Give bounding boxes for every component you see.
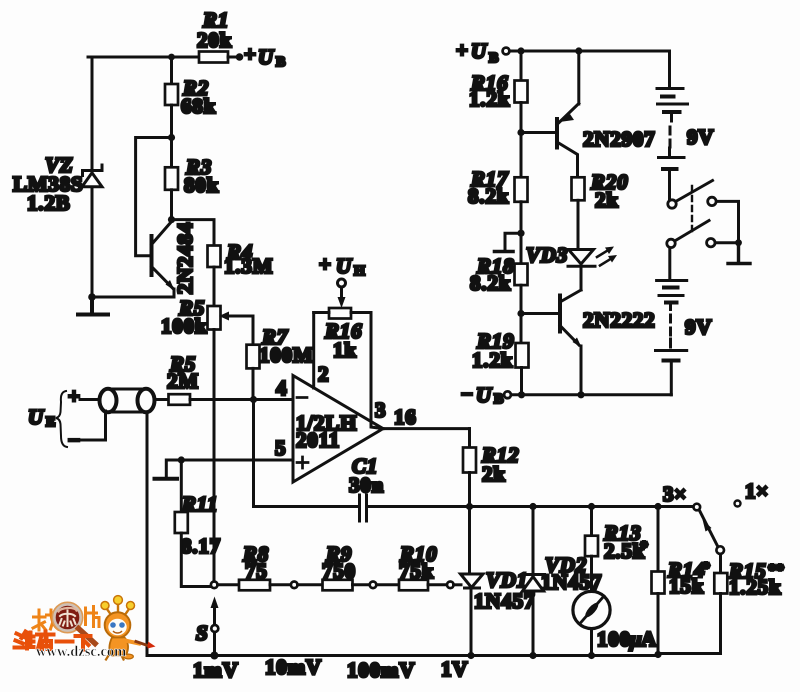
wire: +UB top rail to battery <box>510 50 670 53</box>
wire: R16 left stub <box>314 311 329 314</box>
red text weikuyixia <box>15 632 91 650</box>
wire: feedback rail left segment <box>254 505 359 508</box>
svg-text:1×: 1× <box>745 479 769 503</box>
wire: R12 to feedback rail <box>468 473 471 507</box>
svg-text:E: E <box>46 415 55 430</box>
meter M 100uA <box>573 591 610 628</box>
resistor R11 <box>175 512 188 533</box>
node: rail/R12 junction <box>466 503 473 510</box>
range contact 1V <box>447 582 454 589</box>
svg-text:1.2k: 1.2k <box>472 348 513 372</box>
ground (signal) <box>155 477 178 481</box>
node: bottom rail / meter <box>588 652 595 659</box>
wire: R2 to node <box>170 105 173 138</box>
diode VD1 1N457 <box>461 574 484 588</box>
wire: R18 to R19 <box>520 285 523 343</box>
wire: R7 down to inverting input node <box>252 368 255 399</box>
node: bottom rail / S <box>210 652 218 660</box>
node: collector / R4 junction <box>168 216 175 223</box>
svg-text:−: − <box>461 382 474 406</box>
wire: R8 to contact2 <box>270 583 291 586</box>
svg-text:16: 16 <box>394 405 417 429</box>
svg-text:2k: 2k <box>482 462 506 486</box>
shielded cable <box>100 389 155 412</box>
potentiometer R5 100k <box>208 306 221 330</box>
wire: emitter to ground rail <box>92 296 174 299</box>
svg-text:+: + <box>319 252 332 276</box>
node: right bus junction <box>735 239 742 246</box>
wire: input wire to op-amp pin 4 <box>190 398 293 401</box>
diode VD2 1N457 <box>522 575 545 592</box>
wire: meter to bottom rail <box>590 629 593 656</box>
wire: R2 branch vertical <box>170 57 173 84</box>
svg-text:100M: 100M <box>259 343 314 367</box>
resistor R2 <box>165 84 178 105</box>
battery B1 9V <box>657 89 688 200</box>
wire: output corner down to R12 <box>468 429 471 448</box>
node: bottom rail / VD1 <box>467 652 474 659</box>
wire: contact3 to R10 <box>377 583 400 586</box>
svg-text:8.2k: 8.2k <box>468 184 509 208</box>
svg-text:2M: 2M <box>167 369 199 393</box>
switch S1a pole <box>668 200 676 208</box>
wire: R17 to R18 <box>520 202 523 264</box>
svg-text:1mV: 1mV <box>193 658 239 682</box>
wire: R11 bottom to range contact <box>181 533 210 587</box>
wire: R20 to VD3 <box>577 200 580 249</box>
svg-text:4: 4 <box>276 376 287 400</box>
wire: R10 to contact4 <box>428 583 447 586</box>
svg-text:1k: 1k <box>333 338 357 362</box>
wire: collector node to R4 branch <box>172 220 215 246</box>
logo magnifier with xin <box>52 602 95 643</box>
wire: VD3 to 2N2222 collector <box>580 266 583 290</box>
svg-text:30n: 30n <box>349 473 384 497</box>
resistor R19 <box>516 343 529 368</box>
svg-text:U: U <box>471 39 488 63</box>
switch S circle <box>211 625 218 632</box>
svg-text:2N2222: 2N2222 <box>583 308 655 332</box>
svg-text:*: * <box>640 539 648 556</box>
wire: throw2 to right bus <box>716 241 737 244</box>
svg-text:75: 75 <box>245 559 268 583</box>
svg-text:9V: 9V <box>685 315 712 339</box>
capacitor C1 30n <box>360 495 367 521</box>
SEC_BOTTOM <box>15 596 156 660</box>
svg-text:1.3M: 1.3M <box>224 254 273 278</box>
wire: throw1 to right bus <box>717 201 739 239</box>
wire: node to R11 <box>180 460 183 512</box>
svg-text:750: 750 <box>322 559 356 583</box>
node: +UB junction <box>517 47 524 54</box>
range contact 100mV <box>370 582 377 589</box>
wire: VD1 branch vertical <box>470 507 472 656</box>
svg-text:100k: 100k <box>161 314 207 338</box>
LED VD3 <box>568 250 595 267</box>
svg-text:+: + <box>68 384 81 408</box>
wire: op-amp output <box>383 427 470 430</box>
plus sign inside op-amp <box>297 457 308 468</box>
terminal -UB <box>504 391 511 398</box>
wire: base wire 2N2222 <box>521 312 559 315</box>
svg-text:A: A <box>641 627 657 651</box>
resistor R5 (2M) <box>169 394 191 405</box>
switch S1a lever <box>677 181 713 202</box>
brace input <box>56 391 67 447</box>
mascot <box>101 596 156 660</box>
wire: + input lead <box>80 398 100 401</box>
wire: R14 branch <box>657 507 660 572</box>
svg-text:1N457: 1N457 <box>474 589 535 613</box>
resistor R3 <box>165 167 178 190</box>
wire: cable shield drop to bottom rail <box>146 412 149 656</box>
wire: R1 to +UB terminal <box>228 56 236 59</box>
wiper arm of S with arrow <box>213 606 216 624</box>
terminal +UB (right) <box>503 48 510 55</box>
wire: moving contact to R15 <box>719 554 722 573</box>
switch S1b lever <box>676 221 710 241</box>
resistor R16 (1.2k) <box>515 81 528 103</box>
wire: node to R3 <box>170 138 173 168</box>
node: rail/R14 junction <box>654 503 661 510</box>
resistor R17 <box>515 177 528 202</box>
svg-text:15k: 15k <box>669 574 704 598</box>
wire: pin 2 vertical <box>312 313 315 389</box>
svg-text:B: B <box>489 51 498 66</box>
svg-text:8.17: 8.17 <box>181 534 221 558</box>
wire: R19 to -UB rail <box>520 368 523 395</box>
potentiometer R16 1k <box>329 308 351 319</box>
resistor R13 <box>585 536 598 557</box>
wire: R4 to R5 pot <box>213 267 216 306</box>
node: bottom rail / VD2 <box>529 652 536 659</box>
switch link (dashed) <box>691 186 693 232</box>
svg-text:2k: 2k <box>595 188 619 212</box>
resistor R18 <box>515 264 528 286</box>
resistor R7 <box>247 345 260 369</box>
node: inverting input junction <box>250 396 257 403</box>
resistor R15 <box>714 573 727 594</box>
wire: battery column top <box>668 51 671 86</box>
svg-text:2: 2 <box>318 362 329 386</box>
node: rail/VD2 junction <box>529 503 536 510</box>
switch S2 moving contact <box>716 546 724 554</box>
svg-text:100: 100 <box>597 627 631 651</box>
svg-text:H: H <box>354 264 365 279</box>
switch S1a throw contact <box>708 197 716 205</box>
wire: left vertical (zener branch) <box>91 57 94 297</box>
wire: cable to R5 2M <box>155 398 169 401</box>
wire: collector-base bypass loop <box>136 138 172 256</box>
wire: R13 branch <box>590 507 593 536</box>
svg-text:S: S <box>196 621 208 645</box>
logo char zhao (outlined) <box>33 610 59 630</box>
terminal +UB (left) <box>236 53 244 61</box>
node: R17/R18 stub junction <box>517 230 524 237</box>
resistor R20 <box>572 177 585 200</box>
resistor R10 <box>399 580 428 591</box>
node: non-inverting input junction <box>178 456 185 463</box>
svg-text:+: + <box>456 38 469 62</box>
wire: ground stub of pin5 <box>166 460 181 477</box>
wire: R16 to R17 <box>520 103 523 178</box>
node: base of 2N2222 junction <box>517 310 524 317</box>
svg-text:68k: 68k <box>181 94 216 118</box>
transistor Q1 2N2484 <box>152 222 175 298</box>
svg-text:2.5k: 2.5k <box>604 539 645 563</box>
svg-text:1.25k: 1.25k <box>729 575 781 599</box>
node: rail/R13 junction <box>588 503 595 510</box>
svg-text:VD3: VD3 <box>526 243 568 267</box>
minus sign inside op-amp <box>297 396 307 399</box>
wire: contact4 to VD1 <box>454 583 462 586</box>
switch S1b throw contact <box>707 239 715 247</box>
wire: S to bottom rail <box>213 632 216 656</box>
svg-text:1.2B: 1.2B <box>27 191 70 215</box>
wire: R9 to contact3 <box>353 583 370 586</box>
switch S2 contact 1x (open) <box>735 501 741 507</box>
battery B2 9V <box>656 281 687 395</box>
transistor Q2 2N2907 <box>557 51 579 177</box>
range switch S: selected contact <box>211 582 218 589</box>
svg-text:9V: 9V <box>687 125 714 149</box>
svg-text:www.dzsc.com: www.dzsc.com <box>36 644 126 660</box>
svg-text:20k: 20k <box>197 28 232 52</box>
node: R19 / -UB junction <box>518 391 525 398</box>
wiper of R5 <box>219 312 229 321</box>
resistor R4 <box>208 246 221 268</box>
ground (bottom-left) <box>78 297 108 315</box>
svg-text:2N2907: 2N2907 <box>583 127 655 151</box>
resistor R8 <box>239 580 270 591</box>
svg-text:2011: 2011 <box>296 428 340 452</box>
svg-text:U: U <box>476 383 493 407</box>
transistor Q3 2N2222 <box>560 290 582 395</box>
node: ground junction bottom-left <box>88 293 96 301</box>
svg-text:8.2k: 8.2k <box>470 271 511 295</box>
node: emitter 2N2907 on +UB rail <box>575 47 582 54</box>
wire: C1 feedback left vertical <box>252 400 255 507</box>
svg-text:3: 3 <box>375 398 386 422</box>
resistor R9 <box>323 580 353 591</box>
svg-text:3×: 3× <box>663 482 687 506</box>
svg-text:+: + <box>244 42 257 66</box>
zener diode VZ LM38S <box>82 165 102 187</box>
wire: feedback rail right segment <box>367 505 694 508</box>
wire: R15 to bottom rail <box>658 594 721 654</box>
svg-text:U: U <box>336 254 353 278</box>
wire: wiper down to R7 <box>252 316 255 345</box>
logo char pian (outlined) <box>86 607 100 627</box>
terminal +UH <box>338 279 346 287</box>
wire: R16 right stub and feedback drop <box>351 313 383 429</box>
wire: +UB down to R16(1.2k) <box>520 51 523 81</box>
range contact 10mV <box>291 582 298 589</box>
wire: VD2 branch vertical <box>532 507 535 656</box>
node: bottom rail R14 junction <box>654 651 661 658</box>
wiper arrow of R16 pot <box>340 288 343 299</box>
switch S2 contact 3x <box>694 504 701 511</box>
wire: R14 to bottom rail <box>657 594 660 656</box>
wire: stub to bias tap <box>505 233 521 250</box>
svg-text:1.2k: 1.2k <box>469 87 510 111</box>
node: base of 2N2907 junction <box>517 129 524 136</box>
svg-text:R11: R11 <box>181 492 218 516</box>
node: R2/R3/bypass junction <box>168 134 175 141</box>
svg-text:B: B <box>276 55 285 70</box>
svg-text:10mV: 10mV <box>265 655 322 679</box>
svg-text:80k: 80k <box>184 173 219 197</box>
svg-text:1V: 1V <box>441 657 468 681</box>
wire: -UB rail <box>511 393 671 396</box>
op-amp U1 1/2 LH2011 <box>293 376 383 483</box>
wire: pole2 down to battery B2 <box>668 248 671 279</box>
resistor R14 <box>652 572 665 594</box>
wire: bottom rail <box>147 654 658 657</box>
resistor R12 <box>463 448 476 473</box>
svg-text:U: U <box>28 405 45 429</box>
ground bar (bias tap) <box>495 250 514 254</box>
wire: R13 to meter <box>590 556 593 591</box>
svg-text:75k: 75k <box>399 559 434 583</box>
wire: R5 pot down long vertical to range switch <box>213 330 216 582</box>
wire: base wire 2N2907 <box>521 131 556 134</box>
svg-text:2N2484: 2N2484 <box>173 222 197 294</box>
light arrows of VD3 <box>597 247 617 266</box>
svg-text:U: U <box>258 45 275 69</box>
node: 2N2222 emitter junction <box>577 391 584 398</box>
svg-text:B: B <box>494 392 503 407</box>
svg-text:100mV: 100mV <box>347 658 415 682</box>
resistor R1 <box>199 52 228 63</box>
wire: top-left +UB rail <box>88 56 199 59</box>
wire: pin 5 wire <box>181 459 293 462</box>
node: junction top rail / R2 branch <box>168 54 175 61</box>
wire: contact to R8 <box>218 583 240 586</box>
switch S2 lever with arrow <box>700 511 718 547</box>
wire: - input lead to cable shield <box>80 411 106 440</box>
wire: contact2 to R9 <box>298 583 323 586</box>
switch S1b pole <box>667 239 675 247</box>
wire: R3 to collector node <box>170 190 173 220</box>
terminal bar below bus <box>728 243 750 264</box>
svg-text:5: 5 <box>275 436 286 460</box>
